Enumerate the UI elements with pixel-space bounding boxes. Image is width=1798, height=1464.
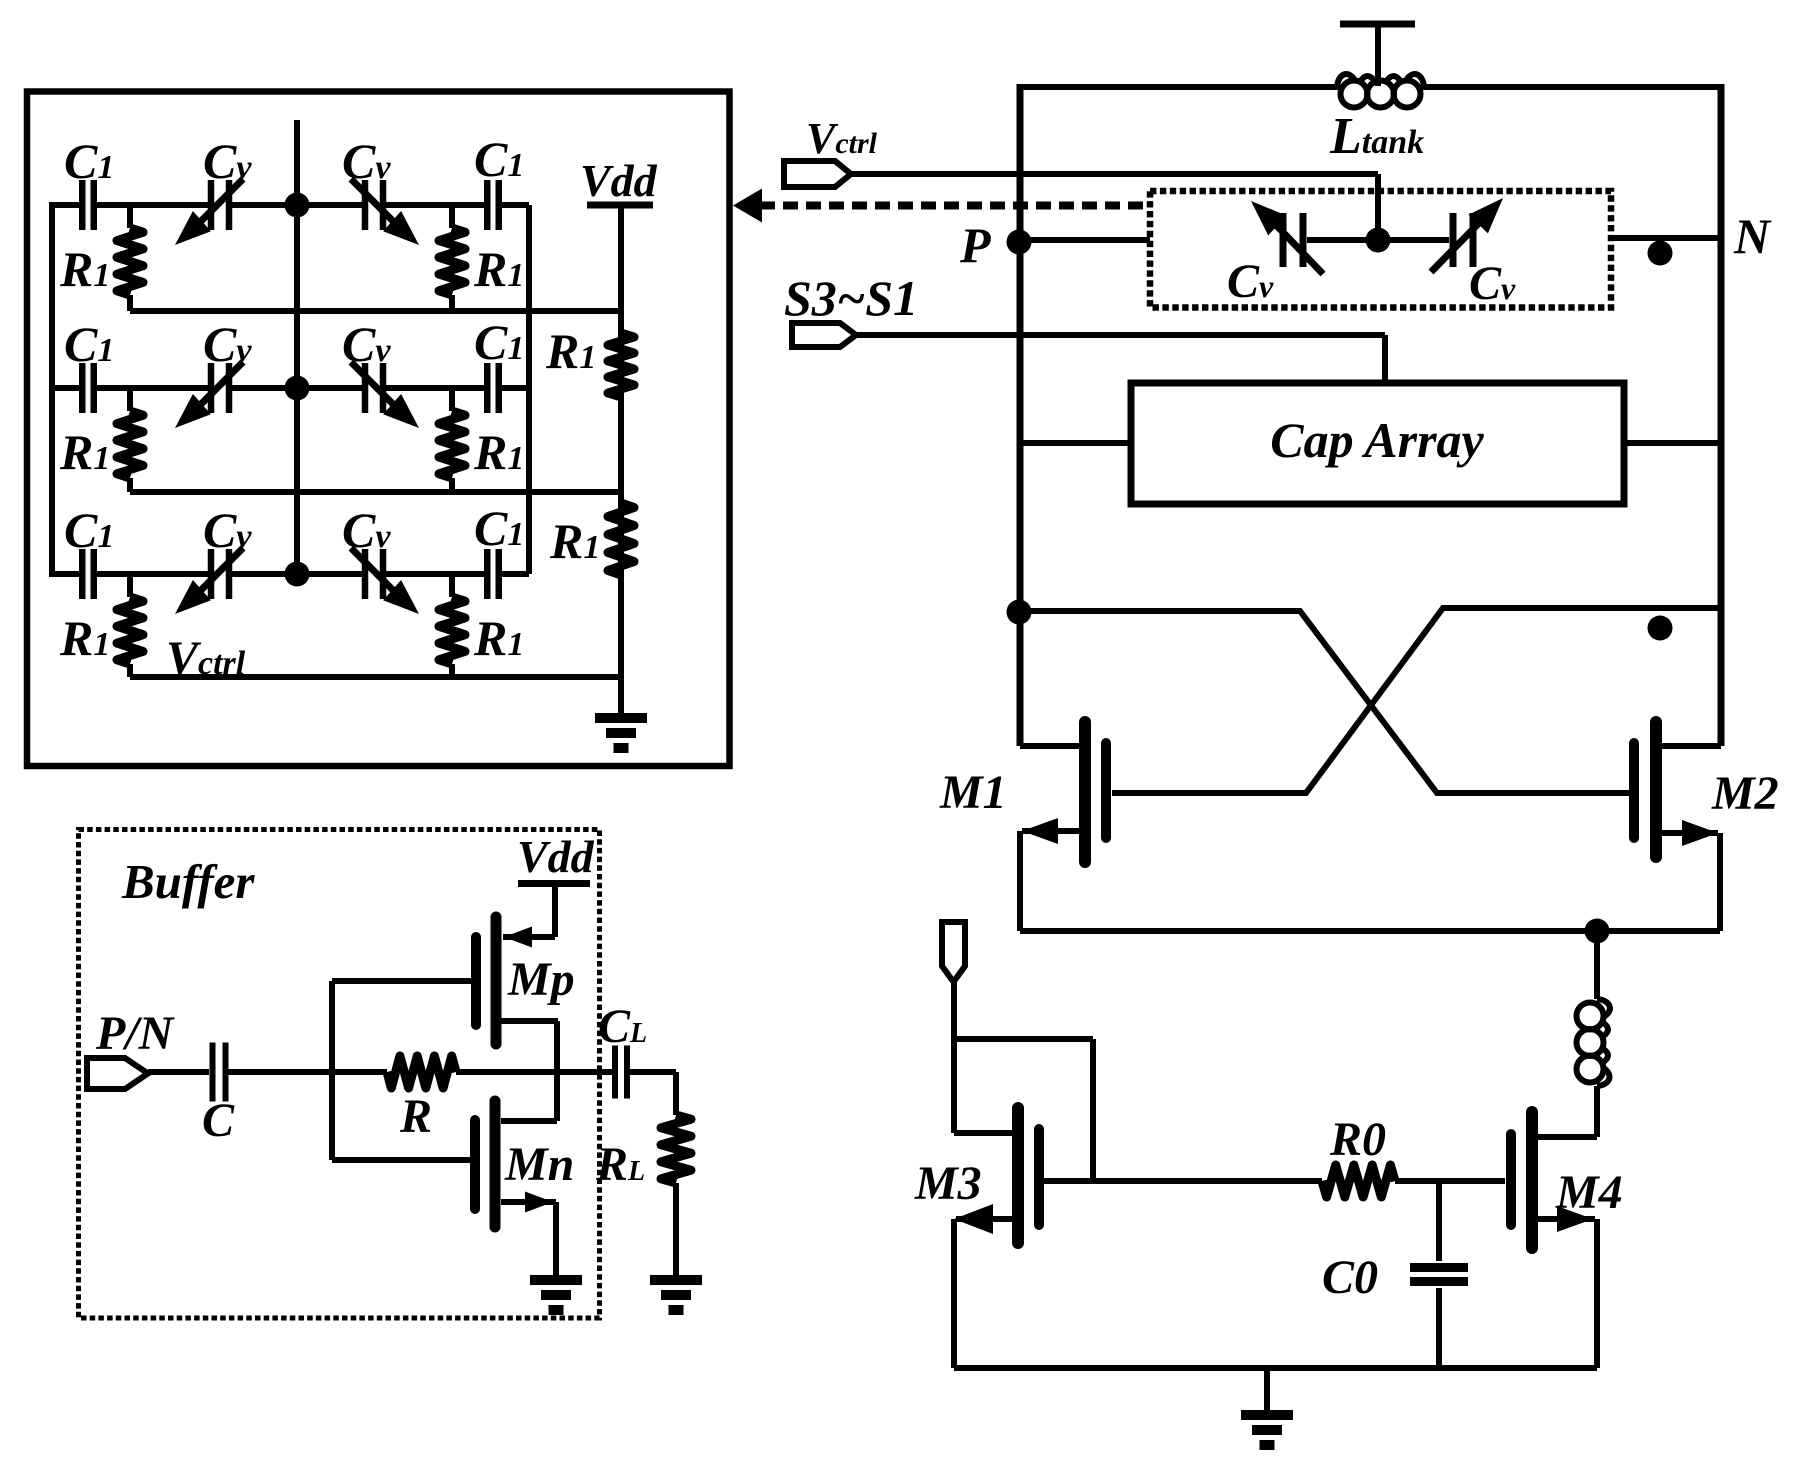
capacitor C0 [1410,1263,1468,1272]
transistor M1 [1079,722,1091,862]
node row2 mid junction [285,376,310,401]
resistor R1 row2 left [127,388,133,411]
wire row1 return [130,308,621,314]
svg-text:R: R [399,1090,432,1143]
node row1 mid junction [285,193,310,218]
svg-text:Mn: Mn [504,1138,574,1191]
wire row3 c [383,571,485,577]
wire row3 return [130,674,621,680]
transistor M4 [1526,1112,1538,1248]
svg-text:C0: C0 [1322,1251,1378,1304]
wire Mn gate lead [332,1157,470,1163]
ground bank [595,713,647,723]
wire row2 c [383,385,485,391]
resistor R1 row2 right [449,388,455,411]
svg-text:C: C [202,1094,235,1147]
wire C0 to ground [1436,1288,1442,1368]
wire Vctrl to varactors [851,171,1378,177]
capacitor C1 row3 left [79,549,86,599]
wire row2 left stub [49,385,80,391]
svg-text:Vdd: Vdd [517,831,595,882]
wire row1 a [94,202,211,208]
resistor R [387,1056,456,1088]
wire tank top right [1421,84,1721,90]
wire inductor to M4 drain [1594,1086,1600,1137]
wire varactor box to N [1611,235,1721,241]
svg-text:N: N [1733,208,1772,264]
resistor R1 row1 right [449,205,455,228]
wire row1 b [229,202,365,208]
svg-text:S3~S1: S3~S1 [784,270,918,326]
svg-text:Buffer: Buffer [121,854,255,909]
wire row2 d [499,385,529,391]
svg-text:M4: M4 [1555,1166,1623,1219]
capacitor CL [612,1046,618,1099]
cap array box [1131,383,1624,504]
wire tank top left [1020,84,1340,90]
varactor Cv row3 left [208,549,215,599]
svg-text:P/N: P/N [95,1007,176,1060]
wire row2 b [229,385,365,391]
wire row2 a [94,385,211,391]
wire R0 to M4 gate [1395,1178,1505,1184]
varactor Cv main right [1450,213,1457,267]
varactor bank box [27,92,730,767]
svg-text:M3: M3 [914,1157,982,1210]
svg-text:M2: M2 [1711,767,1779,820]
wire row1 left stub [49,202,80,208]
ground Mn [530,1275,582,1285]
wire tail to inductor [1594,931,1600,999]
capacitor C1 row1 left [79,180,86,230]
varactor Cv main left [1280,213,1287,267]
transistor Mn [490,1101,501,1227]
dashed arrow Vctrl to bank [733,189,762,223]
buffer box (dashed) [79,830,600,1319]
capacitor C1 row1 right [484,180,491,230]
inductor tail [1577,1003,1604,1030]
wire P to varactor box [1019,237,1150,243]
resistor RL [661,1115,691,1183]
varactor Cv row3 right [362,549,369,599]
resistor R1 row3 left [127,574,133,597]
wire row3 left stub [49,571,80,577]
svg-text:P: P [959,217,991,273]
wire gate bus [329,981,335,1160]
transistor Mp [491,917,502,1044]
wire M3 diode loop [954,1036,1093,1042]
svg-text:Vdd: Vdd [580,155,658,206]
wire row1 c [383,202,485,208]
wire Mp drain to Mn drain [554,1021,560,1121]
capacitor C1 row2 left [79,363,86,413]
node tail junction [1585,919,1610,944]
wire row3 d [499,571,529,577]
pad bias [942,922,965,982]
wire varactor mid [1307,237,1449,243]
resistor R0 [1322,1165,1395,1197]
wire C0 node [1436,1181,1442,1261]
wire pad to M3 [951,982,957,1133]
capacitor C1 row3 right [484,549,491,599]
node row3 mid junction [285,562,310,587]
wire Mp gate lead [332,978,471,984]
resistor R1 rail lower [608,503,634,575]
svg-text:M1: M1 [939,766,1007,819]
capacitor C [210,1043,216,1102]
varactor Cv row1 right [362,180,369,230]
wire row3 b [229,571,365,577]
wire S3 to cap array [856,332,1385,338]
wire RL to ground [673,1183,679,1275]
transistor M2 [1650,722,1662,857]
wire cap array right stub [1624,440,1721,446]
wire Vdd rail [618,205,624,713]
svg-text:R0: R0 [1329,1113,1386,1166]
wire pad to C [148,1069,209,1075]
ground RL [650,1275,702,1285]
wire row2 return [130,489,621,495]
wire left rail [49,205,55,574]
resistor R1 row3 right [449,574,455,597]
wire M3 gate to R0 [1044,1178,1322,1184]
varactor pair box (dashed) [1150,191,1611,308]
node N2 dot [1648,616,1673,641]
power rail top [1340,21,1415,28]
node P2 junction [1007,600,1032,625]
wire N rail [1718,84,1725,746]
wire Vdd to Mp source [552,884,558,938]
varactor Cv row2 left [208,363,215,413]
node varactor mid junction [1366,228,1391,253]
wire P rail [1017,84,1024,746]
wire tail [1020,928,1720,934]
wire cross couple right [1112,608,1721,793]
wire gate bus to R [332,1069,387,1075]
inductor Ltank [1341,81,1368,108]
svg-text:Cap Array: Cap Array [1270,412,1484,468]
capacitor C1 row2 right [484,363,491,413]
resistor R1 row1 left [127,205,133,228]
wire cross couple left [1020,611,1630,793]
wire C to gate bus [226,1069,332,1075]
node N dot [1648,241,1673,266]
varactor Cv row2 right [362,363,369,413]
wire bottom rail [954,1365,1597,1371]
wire right rail [526,205,532,574]
wire cap array left stub [1020,440,1131,446]
wire row3 a [94,571,211,577]
resistor R1 rail upper [608,333,634,397]
varactor Cv row1 left [208,180,215,230]
ground main [1264,1368,1270,1410]
wire row1 d [499,202,529,208]
svg-text:Mp: Mp [507,953,575,1006]
transistor M3 [1012,1108,1024,1243]
node mid rail [294,120,300,574]
wire CL to RL [627,1069,676,1075]
wire R to output node [456,1069,612,1075]
